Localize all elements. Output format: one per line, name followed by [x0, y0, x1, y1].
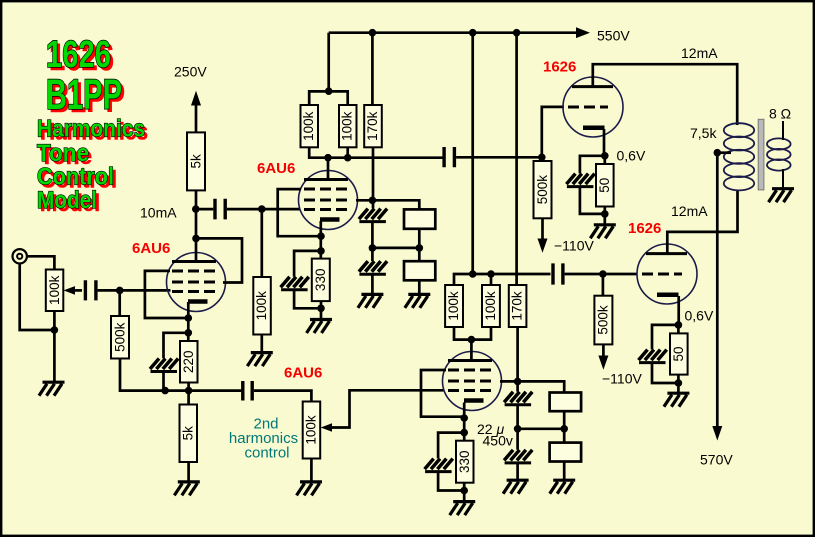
electrolytic E2 — [281, 277, 309, 290]
svg-text:250V: 250V — [174, 64, 207, 80]
wire R11 bottom to ground — [310, 459, 313, 483]
wire wiper to V3 grid — [331, 390, 445, 427]
electrolytic E1 — [150, 359, 178, 372]
node V1 plate — [192, 205, 200, 213]
ground under input pot — [39, 382, 65, 396]
node tie riser — [325, 87, 333, 95]
wire node A to R4 top — [187, 391, 190, 405]
wire E5 to cathode tie — [438, 471, 464, 490]
tube V5 1626 triode — [637, 244, 697, 304]
wire E9 to tie — [652, 362, 678, 383]
wire grid node to R18 — [602, 274, 605, 296]
resistor R15 170k screen V3 — [509, 285, 527, 327]
ground under R6 — [247, 353, 273, 367]
tube V3 6AU6 pentode — [443, 352, 502, 411]
svg-text:6AU6: 6AU6 — [132, 240, 170, 257]
node V5 cathode — [675, 321, 683, 329]
resistor R4 5k — [180, 405, 198, 463]
capacitor C3 to V4 grid — [444, 147, 454, 167]
wire cathode to R17 — [603, 156, 606, 164]
svg-text:100k: 100k — [254, 291, 269, 321]
wire B2 leads — [418, 248, 421, 295]
grid3 bracket of V2 — [278, 189, 319, 236]
svg-text:500k: 500k — [596, 305, 611, 335]
svg-text:Harmonics: Harmonics — [37, 115, 145, 142]
node V3 mid tie right — [560, 425, 568, 433]
wire V5 plate to transformer bottom — [667, 191, 737, 254]
wire E7 to ground — [516, 463, 519, 481]
transformer T1 secondary winding — [767, 138, 791, 170]
svg-text:6AU6: 6AU6 — [257, 160, 295, 177]
wire bus to trio tie — [471, 33, 474, 274]
wire plate node to C2 — [196, 208, 213, 211]
node plate-R9 — [344, 154, 352, 162]
capacitor C2 interstage — [215, 199, 225, 220]
node pot ground — [51, 326, 59, 334]
wiper arrow of R1 — [64, 286, 76, 295]
svg-text:control: control — [244, 445, 289, 462]
electrolytic E9 — [639, 350, 667, 363]
bottom tie of R13 R14 — [454, 327, 491, 340]
node screen tap — [192, 235, 200, 243]
svg-text:100k: 100k — [47, 275, 62, 305]
svg-text:570V: 570V — [700, 452, 733, 468]
screen loop V1 — [196, 238, 242, 282]
tube V1 6AU6 pentode — [167, 253, 226, 312]
svg-text:550V: 550V — [597, 28, 630, 44]
wire screen to B3 — [518, 381, 565, 392]
arrow -110V upper — [538, 239, 548, 253]
svg-text:170k: 170k — [365, 111, 380, 141]
svg-text:0,6V: 0,6V — [617, 148, 646, 164]
node V2 grid — [258, 205, 266, 213]
wire R14 top lead — [490, 274, 493, 285]
svg-text:100k: 100k — [340, 111, 355, 141]
electrolytic E7 — [504, 450, 532, 463]
wire E4 to ground — [371, 274, 374, 294]
tube V4 1626 triode — [563, 77, 623, 137]
node V5 cathode tie — [675, 379, 683, 387]
wire cathode to E9 — [652, 325, 678, 350]
wire B4 to ground — [563, 462, 566, 481]
resistor R2 500k grid leak — [111, 316, 129, 359]
wire R10 bottom to screen node — [372, 147, 375, 208]
node V4 grid — [538, 154, 546, 162]
node V2 screen — [369, 197, 377, 205]
ground under B2 — [405, 294, 431, 308]
node plate tie — [468, 336, 476, 344]
resistor R18 500k grid V5 — [594, 296, 612, 345]
node V3 cathode — [460, 414, 468, 422]
electrolytic E8 — [566, 174, 594, 187]
resistor R9 100k plate — [339, 105, 357, 147]
ground under R4 — [174, 482, 200, 496]
wire E3 to mid tie — [371, 221, 374, 261]
wire B3 to mid tie — [563, 411, 566, 442]
wire center tap to primary — [717, 151, 731, 154]
ground under R11 — [297, 482, 323, 496]
ground under E7 — [503, 480, 529, 494]
wire bus to R10 top — [371, 33, 374, 105]
mid tie wire V3 — [518, 427, 565, 430]
node mid tie left — [369, 244, 377, 252]
wire C1 to V1 grid — [98, 289, 171, 292]
node V1 cathode — [185, 314, 193, 322]
wire tee to electrolytic E1 — [164, 333, 189, 359]
tube V2 6AU6 pentode — [299, 171, 358, 230]
wire R17 to ground — [603, 207, 606, 225]
wire B1 to mid tie — [418, 229, 421, 248]
transformer T1 core — [758, 119, 764, 190]
resistor R10 170k — [364, 105, 382, 147]
wire grid node down to R2 — [118, 290, 121, 316]
wire R12 bottom to ground — [463, 483, 466, 502]
resistor R13 100k plate V3 — [445, 285, 463, 327]
electrolytic E6 — [504, 392, 532, 405]
node V4 cathode — [601, 152, 609, 160]
resistor R16 500k grid V4 — [534, 161, 552, 218]
TITLE-BLOCK — [37, 34, 148, 217]
svg-text:10mA: 10mA — [140, 205, 177, 221]
wire wiper to capacitor C1 — [74, 289, 82, 292]
wire V2 screen out — [356, 199, 372, 202]
wire R6 to ground — [260, 335, 263, 353]
box B1 screen filter — [404, 209, 435, 228]
arrow 250V — [191, 91, 201, 106]
node grid V1 — [116, 287, 124, 295]
node V3 mid tie left — [514, 425, 522, 433]
svg-text:6AU6: 6AU6 — [284, 365, 322, 382]
wire V3 cathode down — [463, 403, 466, 441]
wire V4 plate to transformer top — [593, 64, 737, 125]
wire R19 to ground — [677, 375, 680, 394]
svg-text:5k: 5k — [180, 426, 195, 441]
wire center tap to 570V arrow — [716, 153, 719, 428]
node bus-V3 — [469, 29, 477, 37]
svg-text:12mA: 12mA — [671, 203, 708, 219]
wire tee to E5 — [438, 433, 464, 459]
node tie-bus — [469, 270, 477, 278]
ground under R17 — [590, 225, 616, 239]
mid tie wire — [372, 247, 419, 250]
svg-text:100k: 100k — [483, 291, 498, 321]
wire R16 to bias arrow — [541, 218, 544, 240]
wire R4 to ground — [187, 462, 190, 482]
wire riser to 550V bus — [327, 33, 330, 92]
wire R7 bottom to ground — [320, 301, 323, 319]
svg-text:1626: 1626 — [543, 59, 576, 76]
wire pot bottom to ground — [53, 311, 56, 382]
wire R5 to 250V arrow — [195, 102, 198, 132]
wire C3 to V4 grid node — [456, 156, 542, 159]
wire bus to R15 — [515, 33, 518, 285]
wiper arrow of R11 — [321, 423, 332, 432]
node center tap — [714, 149, 722, 157]
svg-text:50: 50 — [671, 346, 686, 361]
wire E8 to tie — [580, 186, 605, 214]
svg-text:100k: 100k — [446, 291, 461, 321]
svg-text:50: 50 — [597, 178, 612, 193]
arrow 570V — [712, 426, 722, 441]
svg-text:12mA: 12mA — [681, 45, 718, 61]
potentiometer R1 100k volume — [46, 270, 64, 312]
electrolytic E4 — [359, 261, 387, 274]
arrow 550V — [576, 27, 590, 38]
node tie-R14 — [487, 270, 495, 278]
node cathode tie V3 — [460, 487, 468, 495]
svg-text:0,6V: 0,6V — [685, 308, 714, 324]
svg-text:Model: Model — [37, 187, 97, 214]
wire R15 bottom to screen node — [516, 327, 519, 392]
node V3 screen — [514, 378, 522, 386]
resistor R3 220 cathode — [180, 341, 198, 383]
resistor R6 100k grid leak V2 — [253, 277, 270, 335]
svg-text:330: 330 — [457, 450, 472, 473]
ground under R19 — [664, 393, 690, 407]
svg-text:450v: 450v — [483, 433, 513, 449]
svg-text:8 Ω: 8 Ω — [769, 106, 791, 122]
wire screen to B1 — [372, 200, 419, 209]
wire V1 cathode down — [187, 302, 190, 341]
wire E2 to cathode ground tie — [294, 290, 321, 309]
electrolytic E3 — [359, 209, 387, 222]
ground under B4 — [550, 480, 576, 494]
box B3 screen filter — [550, 393, 582, 412]
wire tee to E2 — [294, 251, 321, 277]
svg-text:500k: 500k — [535, 175, 550, 205]
resistor R5 5k plate load — [187, 132, 205, 190]
wire R18 to bias arrow — [602, 344, 605, 357]
wire secondary bottom lead — [782, 169, 784, 189]
wire grid node to R6 — [260, 209, 263, 277]
node plate-R8 — [324, 154, 332, 162]
box B4 screen filter — [550, 443, 582, 462]
node A junction dots — [161, 387, 169, 395]
resistor R12 330 cathode V3 — [456, 441, 474, 483]
capacitor C1 coupling — [85, 280, 96, 300]
wire secondary top lead — [782, 121, 784, 140]
wire V5 cathode down — [677, 296, 680, 325]
ground under R7 — [307, 320, 333, 334]
wire plate node to R5 — [195, 191, 198, 210]
node mid tie right — [416, 244, 424, 252]
wire tie to V3 plate — [470, 340, 473, 362]
svg-text:1626: 1626 — [46, 34, 111, 76]
resistor R7 330 cathode V2 — [312, 259, 330, 302]
node V5 grid — [599, 270, 607, 278]
wire V3 screen out — [500, 380, 518, 383]
svg-text:330: 330 — [313, 269, 328, 292]
svg-text:100k: 100k — [304, 415, 319, 445]
ground under secondary — [769, 189, 795, 203]
svg-text:5k: 5k — [188, 154, 203, 169]
capacitor C5 to V5 grid — [553, 263, 563, 284]
grid3 bracket of V1 — [145, 271, 187, 318]
node bus-170k — [369, 29, 377, 37]
ground under E4 — [358, 294, 384, 308]
node ecap tee — [185, 329, 193, 337]
svg-text:−110V: −110V — [602, 371, 642, 387]
wire C5 to V5 grid — [565, 273, 638, 276]
ground under R12 — [450, 502, 476, 515]
wire grid node up to V4 — [542, 107, 564, 157]
input jack J1 — [13, 249, 27, 263]
wire cathode to E8 — [580, 156, 605, 174]
svg-text:170k: 170k — [510, 291, 525, 321]
svg-text:7,5k: 7,5k — [690, 125, 717, 141]
node V2 cathode — [317, 232, 325, 240]
potentiometer R11 100k harmonics — [303, 402, 321, 459]
top tie of R8 R9 — [309, 91, 348, 105]
wire jack tip to volume pot top — [27, 256, 54, 269]
wire grid node down to R16 — [540, 157, 543, 161]
wire V2 plate up — [327, 158, 330, 180]
wire C4 to harmonics pot — [254, 391, 312, 402]
wire E1 bottom to node A — [162, 371, 165, 390]
svg-text:1626: 1626 — [628, 220, 661, 237]
wire V4 cathode down — [603, 129, 606, 156]
wire V2 cathode down — [319, 221, 322, 259]
svg-text:−110V: −110V — [554, 238, 594, 254]
resistor R19 50 cathode V5 — [670, 333, 688, 374]
wire jack sleeve to ground node — [20, 264, 55, 330]
resistor R8 100k plate — [301, 105, 319, 147]
node V2 ecap tee — [317, 247, 325, 255]
wire V1 plate up — [195, 209, 198, 261]
node V4 cathode tie — [601, 210, 609, 218]
550V bus — [329, 31, 577, 34]
grid3 bracket of V3 — [421, 370, 463, 417]
svg-text:500k: 500k — [112, 322, 127, 352]
node bus-170k2 — [513, 29, 521, 37]
wire R2 bottom to node A — [120, 359, 242, 391]
wire R9 bottom lead — [346, 147, 349, 157]
wire E6 to mid tie — [516, 405, 519, 450]
node cathode ground tie — [317, 305, 325, 313]
arrow -110V lower — [598, 356, 608, 370]
node V3 ecap tee — [460, 429, 468, 437]
svg-text:220: 220 — [181, 350, 196, 373]
box B2 screen filter — [404, 261, 435, 280]
wire plate rail — [309, 147, 444, 157]
wire R3 bottom to node A — [187, 383, 190, 391]
resistor R14 100k plate V3 — [482, 285, 500, 327]
wire C2 to V2 grid — [227, 208, 300, 211]
trio tie wire — [454, 274, 551, 285]
wire cathode to R19 — [677, 325, 680, 334]
resistor R17 50 cathode V4 — [596, 164, 614, 207]
transformer T1 primary winding — [724, 123, 754, 190]
svg-text:100k: 100k — [301, 111, 316, 141]
capacitor C4 feedback to harmonics pot — [243, 381, 252, 401]
electrolytic E5 — [425, 459, 453, 472]
svg-text:B1PP: B1PP — [46, 71, 122, 119]
